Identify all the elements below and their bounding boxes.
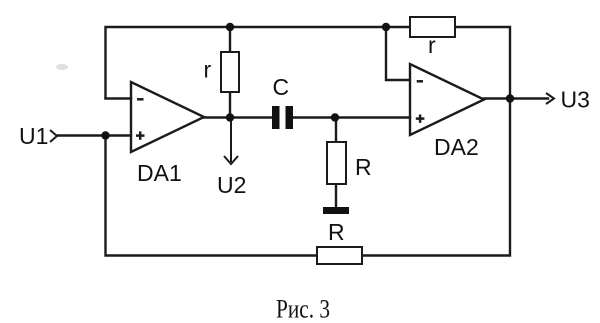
- resistor R2 bottom: [317, 247, 362, 264]
- op-amp DA2: [410, 64, 484, 135]
- output arrow U3: [546, 93, 554, 104]
- node junction DA1 output: [226, 113, 234, 121]
- svg-text:Рис. 3: Рис. 3: [276, 294, 330, 323]
- wire top right from r to right rail: [455, 27, 510, 99]
- svg-text:r: r: [204, 57, 212, 83]
- wire capacitor to DA2 +: [293, 116, 410, 118]
- svg-text:U3: U3: [561, 87, 590, 113]
- node junction DA2 output: [506, 94, 514, 102]
- wire DA1 inverting input: [106, 97, 132, 99]
- smudge artifact: [56, 64, 68, 70]
- wire left vertical down: [106, 136, 318, 256]
- svg-text:DA2: DA2: [434, 134, 479, 160]
- capacitor C: [272, 106, 293, 129]
- wire R to ground: [335, 184, 337, 207]
- svg-text:C: C: [273, 74, 290, 100]
- node junction DA2 feedback: [382, 23, 390, 31]
- svg-text:U2: U2: [217, 172, 246, 198]
- wire vertical through r: [229, 27, 231, 52]
- wire DA2 inverting branch: [386, 27, 410, 80]
- node junction U1: [101, 131, 109, 139]
- resistor r2 top: [410, 17, 455, 37]
- ground: [323, 207, 349, 214]
- wire bottom right: [362, 99, 510, 256]
- wire U1 input to DA1 +: [57, 134, 131, 136]
- wire DA2 output: [484, 97, 548, 99]
- svg-text:R: R: [328, 219, 345, 245]
- node junction R top: [331, 113, 339, 121]
- svg-text:DA1: DA1: [137, 160, 182, 186]
- svg-text:U1: U1: [19, 123, 48, 149]
- wire node to R: [335, 118, 337, 143]
- wire top horizontal: [106, 27, 411, 98]
- node junction r1 top: [226, 23, 234, 31]
- op-amp DA1: [131, 82, 204, 152]
- resistor r1 vertical: [221, 52, 239, 92]
- resistor R1 vertical: [327, 142, 346, 184]
- svg-text:r: r: [428, 32, 436, 58]
- input port U1: [50, 130, 57, 142]
- svg-text:R: R: [355, 154, 372, 180]
- wire DA1 output: [204, 116, 272, 118]
- wire r to output node: [229, 92, 231, 118]
- output arrow U2: [224, 121, 238, 164]
